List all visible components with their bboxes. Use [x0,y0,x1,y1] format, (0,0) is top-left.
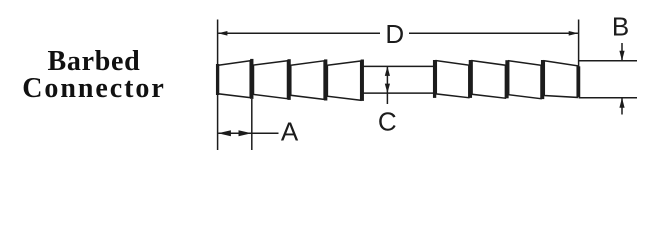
dimension B bottom stem [621,98,623,115]
barb step 1 [250,59,253,99]
arrowhead C up [385,66,390,76]
barb step 3 [324,59,327,100]
right tip face [577,66,580,97]
svg-text:D: D [385,19,404,49]
step1 extension line [251,99,253,150]
barb 7 [509,61,541,99]
svg-text:B: B [612,12,629,42]
barb step 2 [287,59,290,100]
barb step 5 [433,60,436,98]
left extension line [217,20,219,151]
arrowhead D right [569,31,579,36]
right extension line [578,20,580,67]
svg-text:A: A [281,117,299,147]
arrowhead D left [218,31,228,36]
barb step 8 [541,60,544,99]
dimension C stem [386,66,388,104]
barb 8 (right tip cone) [544,61,577,98]
left tip face [216,64,219,95]
dimension D line left part [218,32,380,34]
dimension B top stem [621,43,623,61]
arrowhead B up [619,98,624,108]
arrowhead A left [218,130,231,136]
barb 6 [472,61,505,99]
barb 1 (left tip cone) [218,61,250,98]
barb step 4 [361,60,364,101]
arrowhead C down [385,84,390,94]
arrowhead B down [619,51,624,61]
barb 4 [327,61,360,100]
tube bottom line [364,92,434,94]
svg-text:C: C [378,107,397,137]
dimension A line [218,132,278,134]
product name text [1,48,187,102]
barb 3 [291,61,324,100]
tube top line [364,65,434,67]
dimension D line right part [409,32,578,34]
dimension B bottom leader line [579,97,637,99]
barb 2 [254,61,288,99]
barb 5 [436,61,469,98]
barb step 7 [505,60,508,98]
dimension B top leader line [579,60,637,62]
barb step 6 [469,60,472,98]
arrowhead A right [239,130,252,136]
